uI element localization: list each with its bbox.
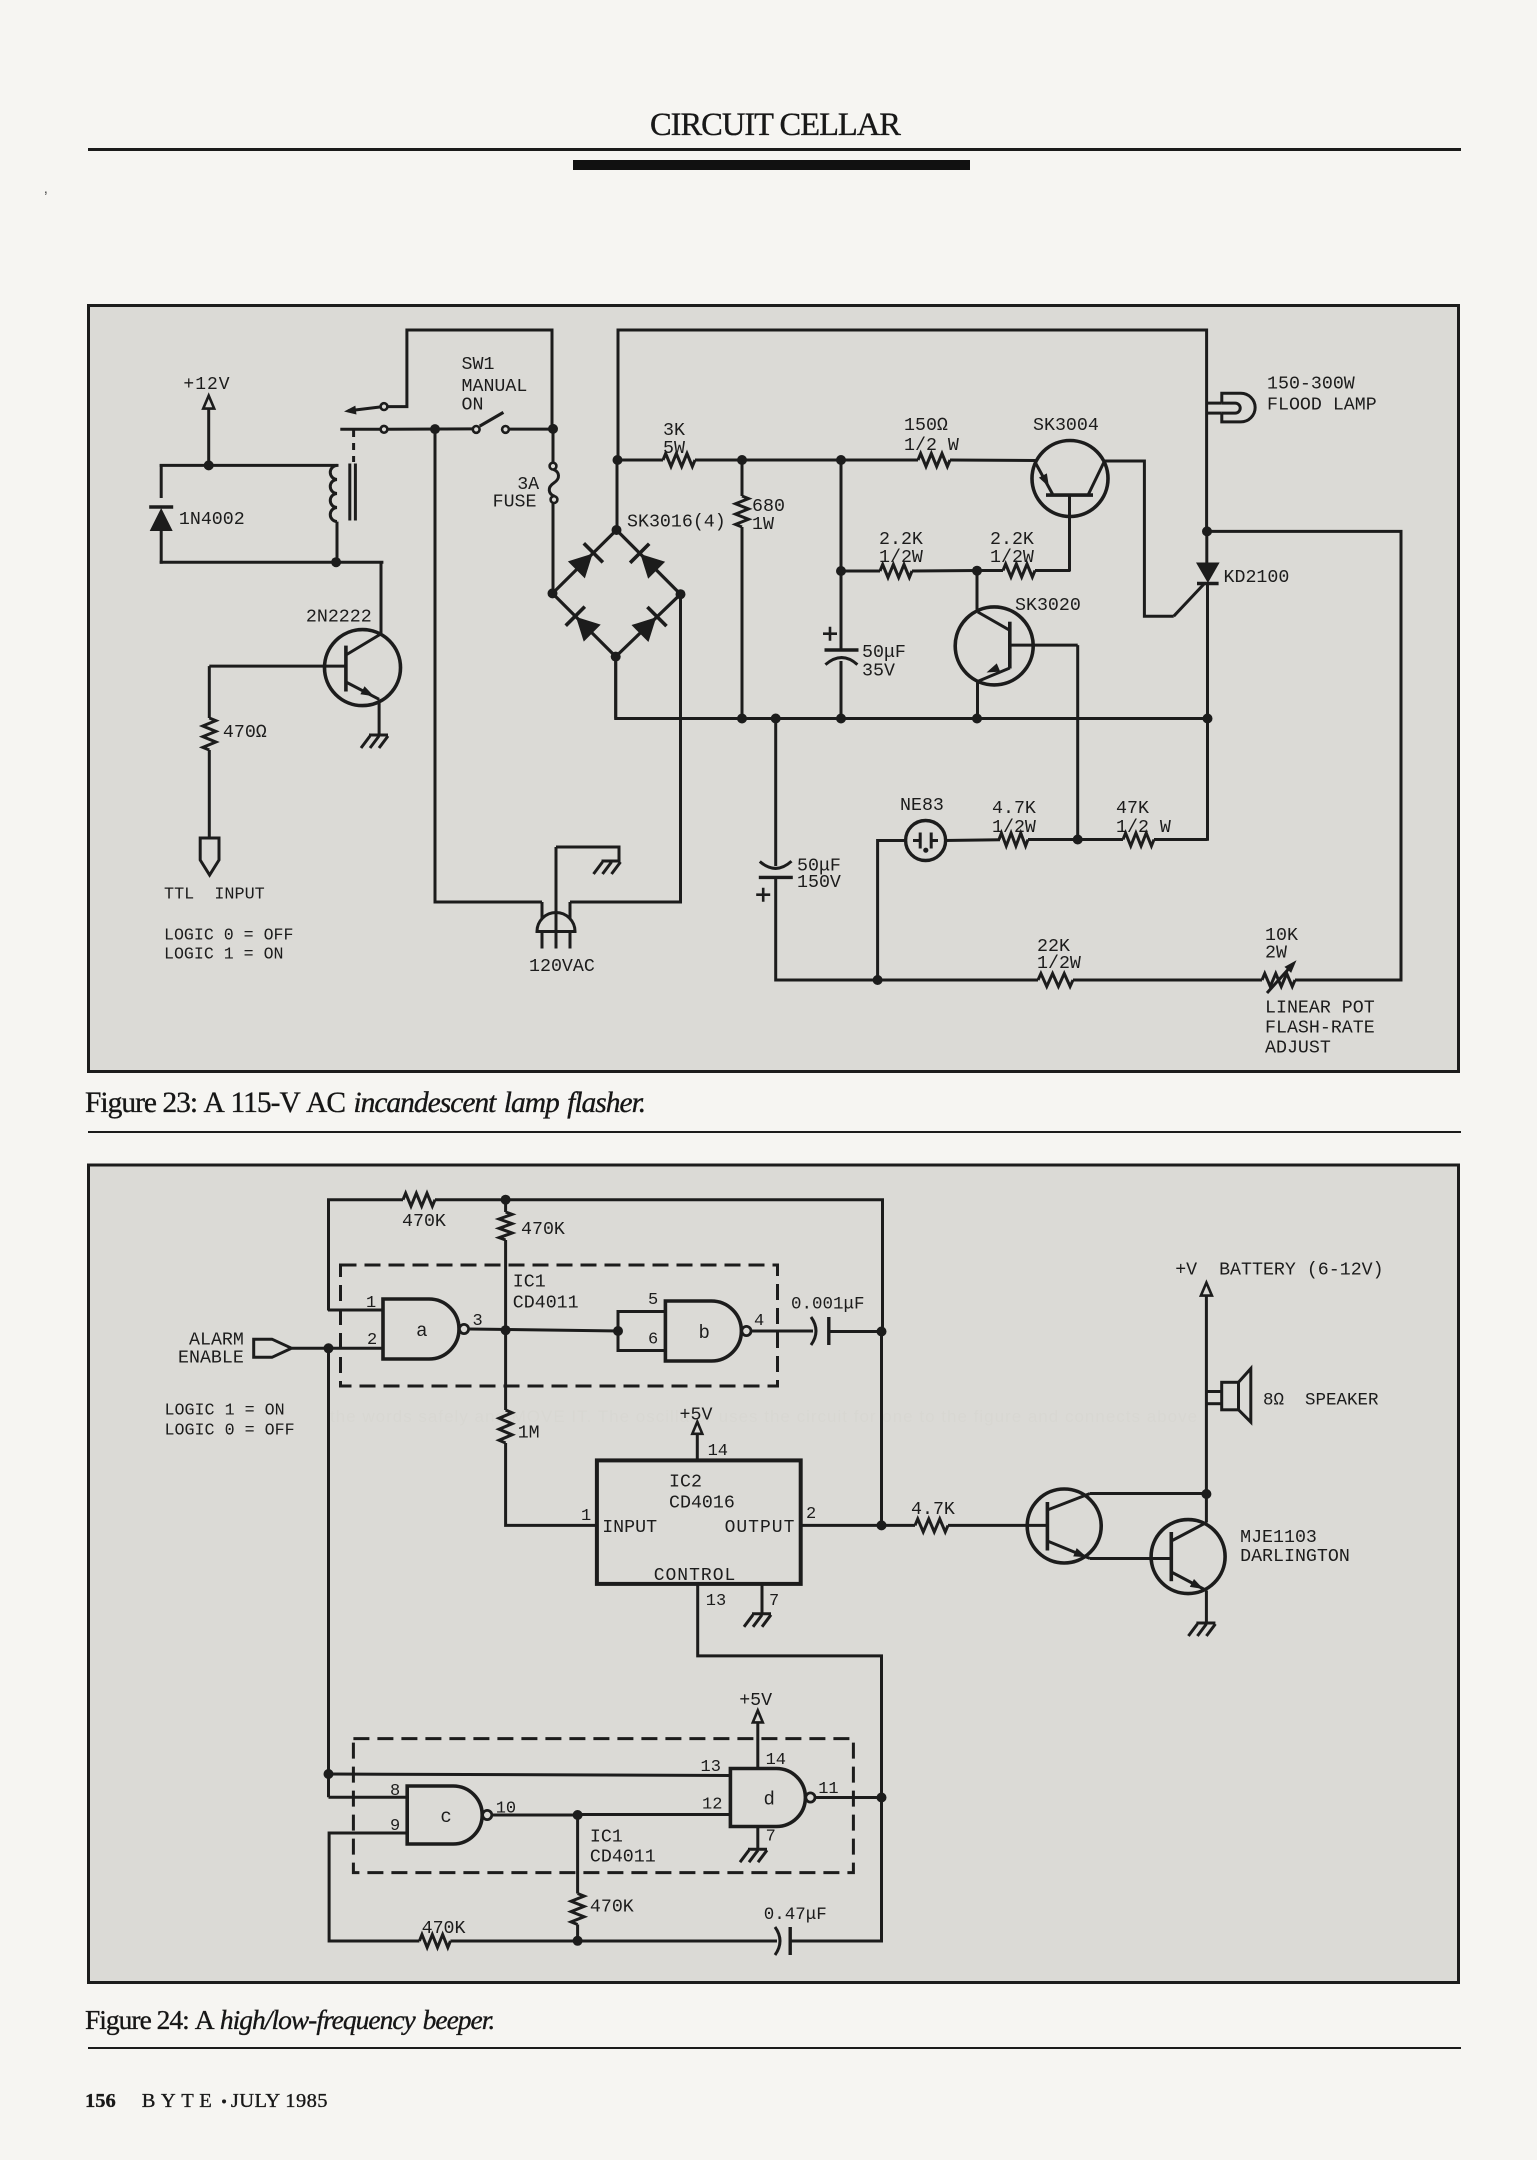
transistor 2N2222 xyxy=(325,630,401,706)
wire emitter xyxy=(378,699,381,735)
svg-text:INPUT: INPUT xyxy=(602,1518,657,1538)
node divider xyxy=(1073,835,1083,845)
node coil bottom xyxy=(331,557,341,567)
gate IC1a xyxy=(383,1299,459,1359)
svg-text:FLASH-RATE: FLASH-RATE xyxy=(1265,1019,1375,1039)
wire pin7 IC2 xyxy=(761,1584,764,1614)
wire output xyxy=(801,1524,915,1527)
svg-text:1: 1 xyxy=(581,1507,591,1526)
svg-text:1/2 W: 1/2 W xyxy=(1116,818,1171,838)
wire NE83 right xyxy=(944,838,1000,842)
wire to 150ohm xyxy=(841,459,918,462)
wire 150ohm to Q xyxy=(950,459,1036,463)
wire dc rail left xyxy=(617,459,663,462)
relay NC contact xyxy=(381,403,388,410)
svg-text:a: a xyxy=(416,1320,427,1342)
svg-text:1M: 1M xyxy=(518,1424,540,1444)
wire +12V stem xyxy=(207,409,210,467)
resistor 470ohm xyxy=(203,718,216,750)
svg-text:8Ω SPEAKER: 8Ω SPEAKER xyxy=(1263,1391,1379,1411)
relay armature xyxy=(348,407,382,411)
node 680 top xyxy=(737,455,747,465)
svg-text:KD2100: KD2100 xyxy=(1224,568,1290,588)
svg-text:680: 680 xyxy=(752,497,785,517)
connector ALARM ENABLE xyxy=(254,1339,292,1357)
svg-text:CD4011: CD4011 xyxy=(590,1848,656,1868)
svg-text:NE83: NE83 xyxy=(900,796,944,816)
svg-text:LOGIC 1 = ON: LOGIC 1 = ON xyxy=(165,1402,285,1421)
node d out xyxy=(877,1793,887,1803)
svg-text:4.7K: 4.7K xyxy=(992,799,1036,819)
transistor MJE1103 darlington xyxy=(1151,1520,1225,1594)
resistor 4.7K xyxy=(999,833,1028,846)
svg-text:2.2K: 2.2K xyxy=(990,530,1034,550)
svg-text:MANUAL: MANUAL xyxy=(462,377,528,397)
svg-text:3: 3 xyxy=(473,1312,483,1331)
resistor 2.2K first xyxy=(840,460,843,572)
wire dc minus rail xyxy=(614,657,617,719)
wire MJE emitter xyxy=(1205,1591,1208,1624)
wire c out xyxy=(491,1814,579,1817)
svg-text:ENABLE: ENABLE xyxy=(178,1349,244,1369)
wire KD upper xyxy=(1205,531,1208,564)
node c out xyxy=(573,1810,583,1820)
svg-text:IC1: IC1 xyxy=(513,1273,546,1293)
svg-text:2N2222: 2N2222 xyxy=(306,608,372,628)
wire alarm drop xyxy=(327,1348,330,1797)
wire Q1 emitter to MJE xyxy=(1090,1557,1171,1560)
svg-text:ALARM: ALARM xyxy=(189,1331,244,1351)
wire pin12 xyxy=(578,1813,731,1816)
svg-text:150-300W: 150-300W xyxy=(1267,375,1355,395)
ground IC2 xyxy=(752,1612,771,1615)
wire NC to rail xyxy=(387,330,552,425)
wire pin14 xyxy=(696,1434,699,1461)
relay linkage dashed xyxy=(352,430,355,462)
relay NO contact xyxy=(381,426,388,433)
gate IC1c xyxy=(407,1786,482,1844)
svg-text:LOGIC 1 = ON: LOGIC 1 = ON xyxy=(164,945,284,964)
node 470K tap xyxy=(501,1195,511,1205)
svg-text:1/2W: 1/2W xyxy=(879,548,923,568)
wire 47K up xyxy=(1154,838,1208,841)
svg-text:+12V: +12V xyxy=(183,375,230,395)
switch SW1 xyxy=(473,426,480,433)
wire relay common xyxy=(340,428,380,431)
connector TTL INPUT xyxy=(200,838,219,875)
wire d out xyxy=(814,1796,884,1799)
figure 23 panel xyxy=(89,306,1459,1072)
wire KD drop xyxy=(1206,584,1209,841)
svg-text:4.7K: 4.7K xyxy=(911,1500,955,1520)
node NE83 bottom xyxy=(873,975,883,985)
figure 24 panel xyxy=(89,1165,1459,1983)
svg-text:150V: 150V xyxy=(797,873,841,893)
svg-text:8: 8 xyxy=(390,1782,400,1801)
wire collector riser xyxy=(380,562,383,635)
wire bridge+ riser xyxy=(616,460,619,531)
triac KD2100 xyxy=(1196,563,1220,584)
svg-text:ON: ON xyxy=(462,396,484,416)
wire top loop xyxy=(160,464,339,467)
ground mains xyxy=(602,860,621,863)
svg-text:IC1: IC1 xyxy=(590,1828,623,1848)
wire pin13 gate d xyxy=(329,1774,731,1776)
svg-text:150Ω: 150Ω xyxy=(904,416,948,436)
svg-text:47K: 47K xyxy=(1116,799,1149,819)
svg-text:470Ω: 470Ω xyxy=(223,723,267,743)
wire bottom rail xyxy=(450,1940,777,1943)
gate b input bracket xyxy=(618,1310,665,1352)
wire 1M to input xyxy=(506,1443,597,1525)
svg-text:2.2K: 2.2K xyxy=(879,530,923,550)
resistor 4.7K beeper xyxy=(915,1519,948,1532)
svg-text:50μF: 50μF xyxy=(862,643,906,663)
svg-text:2W: 2W xyxy=(1265,944,1287,964)
node cap rail xyxy=(877,1327,887,1337)
svg-text:5W: 5W xyxy=(663,439,685,459)
svg-text:6: 6 xyxy=(648,1331,658,1350)
ground gate d xyxy=(748,1848,767,1851)
wire cap to rail xyxy=(829,1330,884,1333)
svg-text:MJE1103: MJE1103 xyxy=(1240,1528,1317,1548)
node pin13 branch xyxy=(324,1769,334,1779)
svg-text:FLOOD LAMP: FLOOD LAMP xyxy=(1267,396,1377,416)
wire NE83 left xyxy=(878,841,907,981)
svg-text:c: c xyxy=(440,1806,451,1828)
svg-text:35V: 35V xyxy=(862,662,895,682)
wire pin8 xyxy=(329,1796,408,1799)
node 35V cap top xyxy=(836,455,846,465)
wire 470K down xyxy=(504,1240,507,1332)
svg-text:2: 2 xyxy=(806,1505,816,1524)
node alarm xyxy=(324,1343,334,1353)
gate IC1b xyxy=(665,1301,741,1361)
gate IC1d xyxy=(730,1769,805,1827)
wire fuse to bridge xyxy=(552,503,555,595)
svg-text:470K: 470K xyxy=(402,1212,446,1232)
svg-text:CONTROL: CONTROL xyxy=(654,1566,737,1586)
svg-text:3K: 3K xyxy=(663,421,685,441)
svg-text:1/2W: 1/2W xyxy=(992,818,1036,838)
transistor Q1 driver xyxy=(1027,1489,1101,1563)
svg-text:9: 9 xyxy=(390,1817,400,1836)
svg-text:ADJUST: ADJUST xyxy=(1265,1039,1331,1059)
resistor 47K xyxy=(1123,833,1154,846)
svg-text:0.47μF: 0.47μF xyxy=(764,1905,827,1925)
wire rail to corner xyxy=(435,1200,883,1334)
wire 4.7K to node xyxy=(1028,838,1079,841)
node SW1 left xyxy=(430,424,440,434)
capacitor 50uF 35V xyxy=(840,571,843,650)
wire low rail left xyxy=(576,1939,579,1942)
wire to cap node xyxy=(742,459,842,462)
capacitor 50uF 150V xyxy=(774,717,777,866)
transistor SK3004 xyxy=(1032,441,1108,517)
resistor 470K pin12 xyxy=(576,1815,579,1894)
svg-text:1/2 W: 1/2 W xyxy=(904,436,959,456)
svg-text:CD4016: CD4016 xyxy=(669,1494,735,1514)
svg-text:SK3016(4): SK3016(4) xyxy=(627,513,726,533)
wire node to 47K xyxy=(1078,838,1123,841)
fuse 3A xyxy=(550,463,557,470)
svg-text:1W: 1W xyxy=(752,515,774,535)
svg-text:1N4002: 1N4002 xyxy=(179,510,245,530)
resistor 22K xyxy=(1038,974,1073,987)
wire base drop left xyxy=(208,666,211,718)
speaker 8ohm xyxy=(1222,1382,1239,1410)
wire bottom rc rail xyxy=(776,979,1038,982)
resistor 150ohm xyxy=(918,454,950,467)
svg-text:1: 1 xyxy=(366,1294,376,1313)
node output xyxy=(877,1520,887,1530)
wire bridge bottom xyxy=(614,657,617,717)
wire NO to SW1 xyxy=(387,427,472,430)
wire pin9 xyxy=(329,1833,419,1941)
wire diode bottom xyxy=(160,531,163,564)
wire 3K to 680 xyxy=(695,459,743,462)
wire gate a out xyxy=(469,1329,621,1331)
svg-text:13: 13 xyxy=(706,1592,726,1611)
svg-text:CD4011: CD4011 xyxy=(513,1294,579,1314)
svg-text:the words safely and MOVE IT.: the words safely and MOVE IT. The oscill… xyxy=(330,1407,1198,1426)
svg-text:LOGIC 0 = OFF: LOGIC 0 = OFF xyxy=(165,1422,295,1441)
svg-text:0.001μF: 0.001μF xyxy=(791,1295,865,1315)
svg-text:1/2W: 1/2W xyxy=(990,548,1034,568)
diode 1N4002 xyxy=(149,507,173,531)
svg-text:4: 4 xyxy=(754,1312,764,1331)
svg-text:SW1: SW1 xyxy=(462,355,495,375)
wire cap to d out xyxy=(790,1798,881,1942)
transistor SK3020 xyxy=(955,607,1033,685)
svg-text:7: 7 xyxy=(769,1592,779,1611)
plug 120VAC xyxy=(537,913,575,932)
svg-text:470K: 470K xyxy=(422,1919,466,1939)
wire rail drop xyxy=(880,1332,883,1528)
svg-text:DARLINGTON: DARLINGTON xyxy=(1240,1547,1350,1567)
wire 470 to ttl xyxy=(208,750,211,839)
svg-text:b: b xyxy=(699,1322,710,1344)
node lamp-KD junction xyxy=(1202,526,1212,536)
resistor 470K feedback xyxy=(403,1193,435,1206)
resistor 3K 5W xyxy=(663,454,695,467)
node low rail xyxy=(573,1936,583,1946)
wire collector Q1 xyxy=(1090,1492,1206,1495)
wire osc top rail xyxy=(329,1200,404,1311)
svg-text:FUSE: FUSE xyxy=(493,493,537,513)
resistor 2.2K second xyxy=(977,569,1003,572)
wire to Q1 base xyxy=(948,1524,1047,1527)
lamp flood 150-300W xyxy=(1207,402,1222,405)
wire collector link xyxy=(1104,461,1174,616)
wire coil bottom stub xyxy=(336,522,339,563)
ground 2N2222 xyxy=(369,734,388,737)
svg-text:IC2: IC2 xyxy=(669,1473,702,1493)
ic IC2 CD4016 xyxy=(597,1460,801,1584)
wire pin14 gate d xyxy=(756,1722,759,1768)
wire base drop xyxy=(1076,645,1079,841)
svg-text:13: 13 xyxy=(701,1758,721,1777)
wire ac left xyxy=(435,901,542,904)
ground MJE xyxy=(1196,1622,1215,1625)
node collector join xyxy=(1201,1489,1211,1499)
svg-text:LOGIC 0 = OFF: LOGIC 0 = OFF xyxy=(164,926,293,945)
node fuse top xyxy=(548,424,558,434)
node 3K left xyxy=(613,455,623,465)
node b input xyxy=(613,1326,623,1336)
wire pin13 route xyxy=(698,1584,882,1799)
wire battery drop xyxy=(1205,1296,1208,1496)
svg-text:2: 2 xyxy=(367,1331,377,1350)
resistor 470K bottom xyxy=(419,1935,450,1948)
svg-text:5: 5 xyxy=(648,1291,658,1310)
svg-text:+5V: +5V xyxy=(739,1691,772,1711)
svg-text:14: 14 xyxy=(708,1442,728,1461)
wire lamp drop xyxy=(1205,329,1208,533)
wire pin7 gate d xyxy=(756,1827,759,1850)
dashed IC1 group a-b xyxy=(341,1265,778,1386)
resistor 680 1W xyxy=(741,460,744,496)
svg-text:470K: 470K xyxy=(590,1898,634,1918)
wire 680 to rail xyxy=(741,527,744,720)
svg-text:d: d xyxy=(764,1789,775,1811)
node 2.2K junction xyxy=(972,566,982,576)
potentiometer 10K 2W xyxy=(1262,974,1295,987)
wire ac right xyxy=(570,593,682,902)
wire pot to rail xyxy=(1295,979,1403,982)
node +12V junction xyxy=(204,460,214,470)
svg-text:470K: 470K xyxy=(521,1220,565,1240)
svg-text:SK3004: SK3004 xyxy=(1033,416,1099,436)
svg-text:12: 12 xyxy=(702,1796,722,1815)
svg-text:OUTPUT: OUTPUT xyxy=(725,1518,796,1538)
svg-text:SK3020: SK3020 xyxy=(1015,596,1081,616)
wire plug gnd xyxy=(556,847,619,861)
node out a xyxy=(501,1325,511,1335)
svg-text:LINEAR POT: LINEAR POT xyxy=(1265,999,1375,1019)
wire SW1 to fuse node xyxy=(509,428,555,431)
dashed IC1 group c-d xyxy=(353,1739,853,1873)
wire b out xyxy=(751,1330,813,1333)
svg-text:+V BATTERY (6-12V): +V BATTERY (6-12V) xyxy=(1175,1261,1383,1281)
relay coil L1 xyxy=(330,465,337,521)
wire alarm to pin2 xyxy=(292,1347,383,1350)
wire 470K low xyxy=(576,1925,579,1942)
wire bottom loop xyxy=(160,561,384,564)
wire 22K to pot xyxy=(1073,979,1262,982)
svg-text:7: 7 xyxy=(766,1828,776,1847)
wire fuse upper xyxy=(552,429,555,463)
relay core xyxy=(348,464,351,521)
capacitor 0.001uF xyxy=(811,1317,816,1345)
wire pin1 xyxy=(328,1309,383,1312)
capacitor 0.47uF xyxy=(775,1927,780,1955)
resistor 470K vertical xyxy=(504,1200,507,1212)
wire right rail xyxy=(1207,531,1401,981)
svg-text:1/2W: 1/2W xyxy=(1037,954,1081,974)
bridge rectifier SK3016(4) xyxy=(553,530,617,593)
wire left branch xyxy=(160,464,163,498)
resistor 1M xyxy=(504,1330,507,1410)
lamp neon NE83 xyxy=(906,821,946,861)
svg-text:120VAC: 120VAC xyxy=(529,957,595,977)
wire main top rail xyxy=(617,329,620,462)
svg-text:TTL INPUT: TTL INPUT xyxy=(164,886,265,905)
wire TTL drop xyxy=(434,429,437,903)
